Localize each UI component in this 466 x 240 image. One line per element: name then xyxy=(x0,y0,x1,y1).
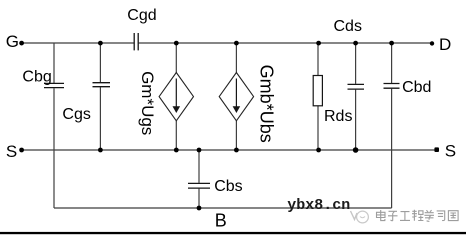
node dot S left terminal xyxy=(19,148,24,153)
wire Cgs branch xyxy=(99,43,101,150)
svg-text:Cgs: Cgs xyxy=(62,106,90,123)
capacitor Cgs xyxy=(93,83,111,87)
svg-text:D: D xyxy=(439,35,451,54)
watermark logo circle xyxy=(357,211,369,223)
wire Cds branch xyxy=(355,43,357,150)
svg-text:Rds: Rds xyxy=(324,108,352,125)
current source Gm*Ugs diamond xyxy=(159,73,193,121)
char 圈 xyxy=(448,211,458,221)
arrow of Gm*Ugs xyxy=(175,79,177,108)
svg-text:Cbd: Cbd xyxy=(402,79,431,96)
node dot S Rds junction xyxy=(316,148,321,153)
wire Gmb*Ubs source stems xyxy=(235,43,237,150)
node dot top Cds junction xyxy=(353,41,358,46)
char 工 xyxy=(400,212,410,221)
watermark CJK text 电子工程学习圈 (approximated strokes) xyxy=(377,210,459,221)
svg-text:Cgd: Cgd xyxy=(127,7,156,24)
svg-text:Gm*Ugs: Gm*Ugs xyxy=(138,71,157,135)
node dot top Gmb*Ubs junction xyxy=(234,41,239,46)
arrow of Gmb*Ubs xyxy=(235,79,237,108)
capacitor Cbd xyxy=(384,84,400,89)
char 子 xyxy=(388,211,398,220)
wire top rail G to Cgd left plate xyxy=(22,42,134,44)
svg-text:Cbg: Cbg xyxy=(22,68,51,85)
wire Cbg branch xyxy=(53,43,55,208)
wire Rds branch xyxy=(317,43,319,150)
svg-text:S: S xyxy=(445,142,456,161)
current source Gmb*Ubs diamond xyxy=(219,73,253,121)
node dot top Cbd junction xyxy=(389,41,394,46)
node dot S Gm*Ugs junction xyxy=(174,148,179,153)
node dot top Rds junction xyxy=(316,41,321,46)
svg-text:Gmb*Ubs: Gmb*Ubs xyxy=(256,65,276,143)
wire top rail Cgd right plate to D xyxy=(139,42,432,44)
bottom separator bar xyxy=(0,232,466,234)
capacitor Cbs xyxy=(188,183,210,188)
resistor Rds xyxy=(313,76,322,106)
node dot S right terminal xyxy=(434,147,439,152)
node dot top Cgs junction xyxy=(98,41,103,46)
capacitor Cgd xyxy=(134,33,138,50)
wire S rail xyxy=(22,149,437,151)
char 习 xyxy=(437,211,445,221)
svg-text:S: S xyxy=(6,142,17,161)
wire Gm*Ugs source stems xyxy=(175,43,177,150)
watermark logo swoosh xyxy=(351,211,358,220)
wire B rail xyxy=(54,207,392,209)
node dot D terminal xyxy=(430,41,434,45)
wire Cbd branch xyxy=(391,43,393,208)
capacitor Cbg xyxy=(44,83,64,87)
svg-text:Cds: Cds xyxy=(334,18,362,35)
svg-text:B: B xyxy=(215,211,227,231)
svg-text:G: G xyxy=(6,32,19,51)
node dot G terminal xyxy=(19,41,24,46)
node dot top Gm*Ugs junction xyxy=(174,41,179,46)
svg-text:Cbs: Cbs xyxy=(214,178,242,195)
wire Cbs branch xyxy=(198,150,200,208)
node dot S Cgs junction xyxy=(98,148,103,153)
node dot S Gmb*Ubs junction xyxy=(234,148,239,153)
node dot S Cbs junction xyxy=(197,148,202,153)
node dot S Cds junction xyxy=(353,147,359,153)
char 学 xyxy=(424,210,434,221)
char 电 xyxy=(377,210,386,221)
capacitor Cds xyxy=(348,84,365,89)
char 程 xyxy=(412,210,423,221)
node dot B junction xyxy=(197,206,202,211)
svg-text:ybx8.cn: ybx8.cn xyxy=(287,197,350,214)
